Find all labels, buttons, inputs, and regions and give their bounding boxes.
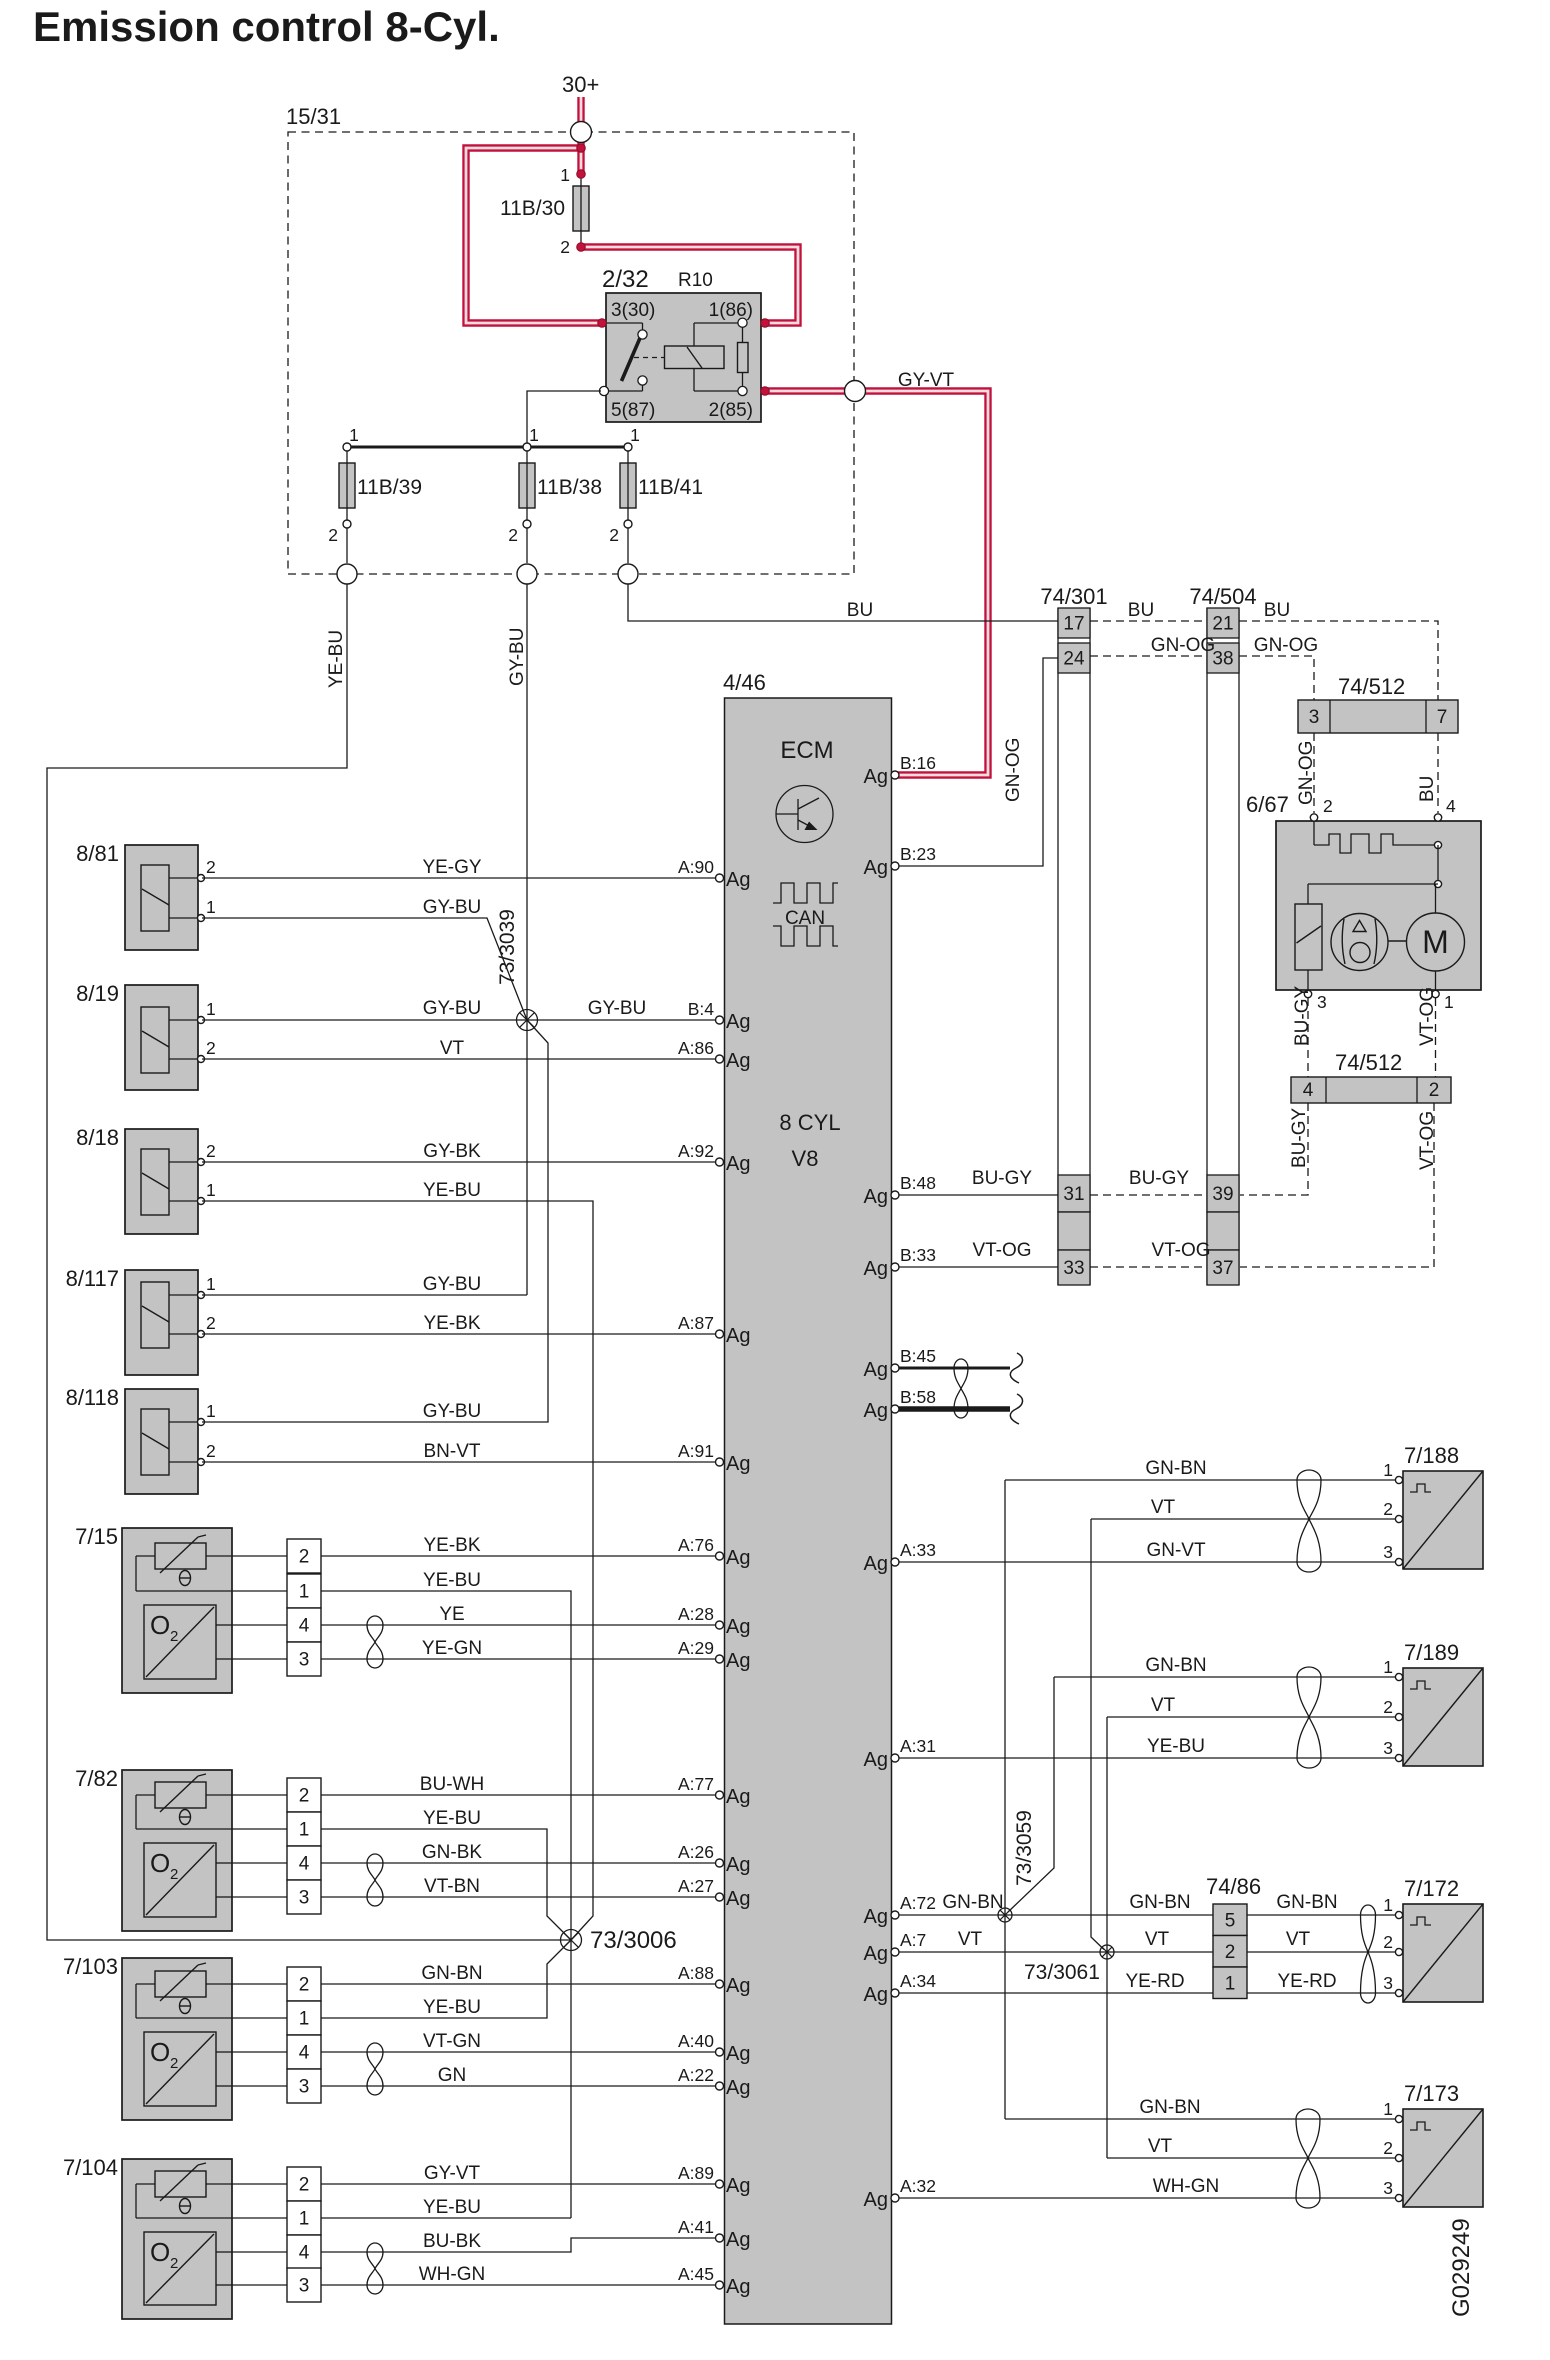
svg-text:2: 2	[206, 1141, 216, 1161]
fuse 11B/41	[609, 425, 703, 563]
wire GN-OG 74/504.38 to 74/512 pin 3	[1239, 656, 1314, 700]
twisted wires 7/172	[1361, 1905, 1376, 1915]
svg-text:2: 2	[206, 857, 216, 877]
junction 73/3059	[998, 1908, 1012, 1922]
svg-text:8 CYL: 8 CYL	[779, 1110, 840, 1135]
twisted pair 7/15	[367, 1616, 383, 1625]
wire VT 8/19.2 to A:86	[202, 1058, 716, 1060]
svg-text:GN-BN: GN-BN	[1276, 1892, 1337, 1913]
svg-text:39: 39	[1212, 1184, 1233, 1205]
svg-text:BU-GY: BU-GY	[1292, 986, 1313, 1047]
connector 74/512 upper	[1298, 674, 1458, 733]
ECM pin B:58	[891, 1405, 899, 1413]
svg-text:11B/38: 11B/38	[537, 476, 602, 499]
svg-text:GN-BN: GN-BN	[421, 1963, 482, 1984]
svg-text:73/3039: 73/3039	[496, 909, 519, 985]
svg-text:5: 5	[1225, 1910, 1236, 1931]
wire GY-BU 8/19.1 to B:4	[202, 1019, 716, 1021]
svg-text:15/31: 15/31	[286, 104, 341, 129]
wire relay 5(87) to fuse bus	[527, 391, 601, 447]
wire GN-BK 7/82.4 to A:26	[321, 1862, 716, 1864]
svg-text:Ag: Ag	[726, 2043, 750, 2065]
svg-text:WH-GN: WH-GN	[419, 2264, 485, 2285]
svg-text:2: 2	[1429, 1080, 1440, 1101]
twisted pair 7/103	[367, 2043, 383, 2052]
ECM pin B:4	[716, 1016, 724, 1024]
svg-text:GY-BU: GY-BU	[423, 1274, 481, 1295]
ECM pin A:91	[716, 1458, 724, 1466]
svg-text:VT-GN: VT-GN	[423, 2031, 481, 2052]
svg-text:Ag: Ag	[864, 1553, 888, 1575]
wire YE-GN 7/15.3 to A:29	[321, 1658, 716, 1660]
svg-text:YE-BK: YE-BK	[423, 1535, 480, 1556]
svg-text:3: 3	[299, 1650, 310, 1671]
wire GN-BN A:72 to 74/86 pin 5	[899, 1914, 1213, 1916]
wire VT to 7/173 pin 2	[1107, 2157, 1399, 2159]
svg-text:A:87: A:87	[678, 1313, 714, 1333]
svg-text:2: 2	[170, 2055, 178, 2072]
svg-text:YE: YE	[439, 1604, 464, 1625]
svg-text:A:76: A:76	[678, 1535, 714, 1555]
svg-text:GN-OG: GN-OG	[1003, 738, 1024, 802]
component 7/172	[1383, 1876, 1483, 2002]
svg-text:GN-BN: GN-BN	[1145, 1655, 1206, 1676]
red wire 30+ feed	[577, 97, 584, 174]
svg-text:7/189: 7/189	[1404, 1640, 1459, 1665]
svg-text:3: 3	[1317, 992, 1327, 1012]
ECM pin B:16	[891, 771, 899, 779]
svg-text:1: 1	[206, 999, 216, 1019]
ECM pin A:33	[891, 1558, 899, 1566]
relay 2/32 R10	[598, 266, 770, 422]
svg-text:2: 2	[1383, 1499, 1393, 1519]
red wire branch to relay pin 3(30)	[466, 148, 604, 323]
svg-text:Ag: Ag	[726, 1453, 750, 1475]
wire BU 74/504.21 to 6/67 pin 4	[1239, 621, 1438, 700]
wire BN-VT 8/118.2 to A:91	[202, 1461, 716, 1463]
break symbol B:58	[1010, 1394, 1022, 1424]
wire YE-BK 7/15.2 to A:76	[321, 1555, 716, 1557]
svg-text:73/3059: 73/3059	[1013, 1810, 1036, 1886]
wire GY-BK 8/18.2 to A:92	[202, 1161, 716, 1163]
svg-text:Emission control 8-Cyl.: Emission control 8-Cyl.	[33, 3, 500, 50]
svg-text:BU: BU	[1264, 600, 1290, 621]
svg-text:Ag: Ag	[864, 1400, 888, 1422]
svg-text:Ag: Ag	[864, 1984, 888, 2006]
svg-text:O: O	[150, 1610, 170, 1640]
twisted pair 7/82	[367, 1854, 383, 1863]
svg-text:1: 1	[299, 2209, 310, 2230]
wire GY-BU 8/117.1 up to junction 73/3039	[202, 1294, 527, 1296]
wire YE-BU 7/103.1 to junction 73/3006	[321, 1940, 571, 2018]
svg-text:Ag: Ag	[726, 869, 750, 891]
svg-text:2: 2	[1225, 1942, 1236, 1963]
svg-text:8/118: 8/118	[66, 1385, 119, 1410]
wire YE-BK 8/117.2 to A:87	[202, 1333, 716, 1335]
svg-text:17: 17	[1063, 614, 1084, 635]
component 7/188	[1383, 1443, 1483, 1569]
wire GN-OG 74/512.3 to 6/67 pin 2	[1313, 733, 1315, 813]
twisted wires 7/188	[1297, 1470, 1321, 1480]
svg-text:74/86: 74/86	[1206, 1874, 1261, 1899]
ECM box 4/46	[723, 670, 892, 2324]
svg-text:Ag: Ag	[864, 1906, 888, 1928]
svg-text:B:58: B:58	[900, 1387, 936, 1407]
break symbol B:45	[1010, 1353, 1022, 1383]
bullet 30+ on border	[571, 122, 592, 143]
wire BU-GY 6/67.3 to 74/512.4	[1307, 998, 1309, 1077]
svg-text:3: 3	[299, 2077, 310, 2098]
svg-text:A:90: A:90	[678, 857, 714, 877]
svg-text:3: 3	[1383, 1542, 1393, 1562]
svg-text:2: 2	[328, 525, 338, 545]
svg-text:Ag: Ag	[864, 766, 888, 788]
wire VT 74/86.2 to 7/172 pin 2	[1247, 1951, 1399, 1953]
wire YE 7/15.4 to A:28	[321, 1624, 716, 1626]
svg-text:GY-BU: GY-BU	[423, 897, 481, 918]
wire VT-BN 7/82.3 to A:27	[321, 1896, 716, 1898]
svg-text:11B/39: 11B/39	[357, 476, 422, 499]
wire YE-BU from 11B/39 to junction 73/3006	[47, 585, 571, 1941]
svg-text:1: 1	[529, 425, 539, 445]
wire BU 74/301.17 to 74/504.21	[1090, 620, 1207, 622]
svg-text:7/172: 7/172	[1404, 1876, 1459, 1901]
red wire relay 2(85) GY-VT to ECM B:16	[763, 391, 988, 775]
svg-text:74/512: 74/512	[1338, 674, 1405, 699]
fuse 11B/39	[328, 425, 422, 563]
svg-text:Ag: Ag	[864, 1186, 888, 1208]
svg-text:YE-GY: YE-GY	[422, 857, 481, 878]
ECM pin A:72	[891, 1911, 899, 1919]
svg-text:B:48: B:48	[900, 1173, 936, 1193]
svg-text:Ag: Ag	[726, 2229, 750, 2251]
svg-text:38: 38	[1212, 649, 1233, 670]
svg-text:VT: VT	[1286, 1929, 1311, 1950]
svg-text:2: 2	[560, 237, 570, 257]
svg-text:A:89: A:89	[678, 2163, 714, 2183]
wire GN-BN 74/86.5 to 7/172 pin 1	[1247, 1914, 1399, 1916]
svg-text:GY-BU: GY-BU	[588, 998, 646, 1019]
svg-text:Ag: Ag	[864, 1258, 888, 1280]
svg-text:74/504: 74/504	[1189, 584, 1256, 609]
svg-text:A:72: A:72	[900, 1893, 936, 1913]
svg-text:7/103: 7/103	[63, 1954, 118, 1979]
svg-text:BU-BK: BU-BK	[423, 2231, 481, 2252]
svg-text:YE-BU: YE-BU	[423, 1808, 481, 1829]
svg-text:VT: VT	[1151, 1497, 1176, 1518]
svg-text:GN-BN: GN-BN	[1145, 1458, 1206, 1479]
svg-text:3(30): 3(30)	[611, 300, 655, 321]
wire YE-BU 7/104.1 to junction 73/3006	[321, 2217, 571, 2219]
svg-text:31: 31	[1063, 1184, 1084, 1205]
svg-text:1: 1	[206, 1401, 216, 1421]
svg-text:1: 1	[1383, 1895, 1393, 1915]
bullet GY-VT on border	[845, 381, 866, 402]
svg-text:VT-OG: VT-OG	[1151, 1240, 1210, 1261]
svg-text:1: 1	[206, 897, 216, 917]
svg-text:A:88: A:88	[678, 1963, 714, 1983]
ground bullet BU	[618, 564, 638, 584]
svg-text:1: 1	[1383, 1460, 1393, 1480]
svg-text:2: 2	[206, 1038, 216, 1058]
svg-text:B:45: B:45	[900, 1346, 936, 1366]
svg-text:GY-VT: GY-VT	[424, 2163, 481, 2184]
twisted wires 7/173	[1296, 2109, 1320, 2119]
svg-text:2: 2	[299, 2175, 310, 2196]
svg-text:VT: VT	[1148, 2136, 1173, 2157]
ECM pin A:27	[716, 1893, 724, 1901]
svg-text:GN-OG: GN-OG	[1296, 741, 1317, 805]
svg-text:11B/41: 11B/41	[638, 476, 703, 499]
svg-text:2: 2	[1383, 1697, 1393, 1717]
wire GN-BN to 7/173 pin 1	[1005, 2118, 1399, 2120]
svg-text:1: 1	[349, 425, 359, 445]
svg-text:YE-RD: YE-RD	[1277, 1971, 1336, 1992]
ECM pin A:29	[716, 1655, 724, 1663]
svg-text:3: 3	[299, 1888, 310, 1909]
svg-text:A:22: A:22	[678, 2065, 714, 2085]
junction 73/3006	[561, 1930, 582, 1951]
wire BU-BK 7/104.4 to A:41	[321, 2238, 716, 2252]
wire YE-BU 7/15.1 to junction 73/3006	[321, 1591, 571, 2218]
svg-text:Ag: Ag	[726, 2175, 750, 2197]
svg-text:Ag: Ag	[864, 2189, 888, 2211]
svg-text:GN-OG: GN-OG	[1254, 635, 1318, 656]
svg-text:YE-BU: YE-BU	[326, 630, 347, 688]
svg-text:BU: BU	[847, 600, 873, 621]
svg-text:A:32: A:32	[900, 2176, 936, 2196]
svg-text:A:29: A:29	[678, 1638, 714, 1658]
ECM pin A:92	[716, 1158, 724, 1166]
wire VT-OG B:33 to 74/301 pin 33	[899, 1266, 1058, 1268]
twisted pair CAN	[954, 1359, 968, 1368]
svg-text:YE-BU: YE-BU	[423, 2197, 481, 2218]
ECM pin A:26	[716, 1859, 724, 1867]
ECM pin A:41	[716, 2234, 724, 2242]
component 7/104 rear O2 sensor	[63, 2155, 321, 2319]
svg-text:A:26: A:26	[678, 1842, 714, 1862]
ECM pin A:34	[891, 1989, 899, 1997]
wire GN-OG 74/301.24 to 74/504.38	[1090, 655, 1207, 657]
svg-text:O: O	[150, 1848, 170, 1878]
twisted pair 7/104	[367, 2243, 383, 2252]
wire YE-BU A:31 to 7/189 pin 3	[899, 1757, 1399, 1759]
component 8/18	[76, 1125, 216, 1234]
svg-text:1: 1	[1383, 2099, 1393, 2119]
svg-text:YE-BU: YE-BU	[423, 1180, 481, 1201]
svg-text:GY-VT: GY-VT	[898, 370, 955, 391]
svg-text:4: 4	[1303, 1080, 1314, 1101]
ECM pin A:88	[716, 1980, 724, 1988]
svg-text:A:92: A:92	[678, 1141, 714, 1161]
wire GY-BU 8/118.1 up to junction 73/3039	[202, 1020, 548, 1422]
wire GN-BN 7/103.2 to A:88	[321, 1983, 716, 1985]
svg-text:M: M	[1422, 924, 1449, 960]
component 7/189	[1383, 1640, 1483, 1766]
wire GN-BN to 7/189 pin 1	[1054, 1676, 1399, 1678]
wire B:58 CAN low	[899, 1406, 1010, 1412]
svg-text:BU: BU	[1417, 776, 1438, 802]
svg-text:4: 4	[299, 2043, 310, 2064]
svg-text:YE-BU: YE-BU	[423, 1570, 481, 1591]
wire GN-BN vertical 7/189 to junction 73/3059	[1008, 1677, 1054, 1912]
svg-text:74/301: 74/301	[1040, 584, 1107, 609]
wire VT vertical 7/189 to 7/173	[1106, 1717, 1108, 2158]
svg-text:7/15: 7/15	[75, 1524, 118, 1549]
fuse bus wire	[347, 446, 628, 449]
svg-text:VT: VT	[1151, 1695, 1176, 1716]
svg-text:A:40: A:40	[678, 2031, 714, 2051]
svg-text:A:77: A:77	[678, 1774, 714, 1794]
component 7/173	[1383, 2081, 1483, 2207]
svg-text:2: 2	[170, 2255, 178, 2272]
svg-text:A:31: A:31	[900, 1736, 936, 1756]
svg-text:24: 24	[1063, 649, 1085, 670]
wire BU-WH 7/82.2 to A:77	[321, 1794, 716, 1796]
svg-text:GY-BU: GY-BU	[507, 628, 528, 686]
svg-text:Ag: Ag	[864, 1359, 888, 1381]
wire GN-BN to 7/188 pin 1	[1005, 1479, 1399, 1481]
component 8/81	[76, 841, 216, 950]
wire VT-OG 74/512.2 to 74/504.37	[1240, 1103, 1434, 1267]
svg-text:2: 2	[1383, 1932, 1393, 1952]
svg-text:8/81: 8/81	[76, 841, 119, 866]
wire VT-GN 7/103.4 to A:40	[321, 2051, 716, 2053]
ECM CAN symbol	[773, 883, 838, 946]
svg-text:3: 3	[1383, 2178, 1393, 2198]
svg-text:4: 4	[299, 2243, 310, 2264]
svg-text:5(87): 5(87)	[611, 400, 655, 421]
svg-text:B:4: B:4	[688, 999, 715, 1019]
svg-text:VT: VT	[440, 1038, 465, 1059]
svg-text:1: 1	[299, 1820, 310, 1841]
junction 73/3039	[517, 1010, 538, 1031]
svg-text:Ag: Ag	[726, 1616, 750, 1638]
ECM pin A:7	[891, 1948, 899, 1956]
svg-text:1(86): 1(86)	[709, 300, 753, 321]
svg-text:1: 1	[1383, 1657, 1393, 1677]
svg-text:Ag: Ag	[726, 1050, 750, 1072]
wire WH-GN A:32 to 7/173 pin 3	[899, 2197, 1399, 2199]
svg-text:8/117: 8/117	[66, 1266, 119, 1291]
wire BU-GY B:48 to 74/301 pin 31	[899, 1194, 1058, 1196]
svg-text:Ag: Ag	[726, 1975, 750, 1997]
wire YE-BU 8/18.1 down to junction 73/3006	[202, 1201, 593, 1940]
svg-text:4: 4	[1446, 796, 1456, 816]
ground bullet YE-BU	[337, 564, 357, 584]
svg-text:2: 2	[1323, 796, 1333, 816]
svg-text:6/67: 6/67	[1246, 792, 1289, 817]
svg-text:3: 3	[1383, 1738, 1393, 1758]
svg-text:BU-WH: BU-WH	[420, 1774, 484, 1795]
svg-text:VT: VT	[1145, 1929, 1170, 1950]
svg-text:2: 2	[1383, 2138, 1393, 2158]
svg-text:7/173: 7/173	[1404, 2081, 1459, 2106]
svg-text:BU: BU	[1128, 600, 1154, 621]
wire WH-GN 7/104.3 to A:45	[321, 2284, 716, 2286]
svg-text:V8: V8	[792, 1146, 819, 1171]
ECM pin A:40	[716, 2048, 724, 2056]
svg-text:R10: R10	[678, 270, 713, 291]
svg-text:Ag: Ag	[726, 2276, 750, 2298]
svg-text:1: 1	[206, 1180, 216, 1200]
svg-text:Ag: Ag	[726, 1153, 750, 1175]
svg-text:O: O	[150, 2237, 170, 2267]
svg-text:YE-BK: YE-BK	[423, 1313, 480, 1334]
svg-text:1: 1	[560, 165, 570, 185]
wire GY-VT 7/104.2 to A:89	[321, 2183, 716, 2185]
svg-text:Ag: Ag	[726, 2077, 750, 2099]
wire B:45 CAN high	[899, 1367, 1010, 1370]
wire YE-BU 7/82.1 to junction 73/3006	[321, 1829, 571, 1940]
svg-text:G029249: G029249	[1448, 2218, 1475, 2317]
svg-text:YE-BU: YE-BU	[1147, 1736, 1205, 1757]
wire GY-BU 8/81.1 to junction 73/3039	[202, 918, 527, 1020]
svg-text:37: 37	[1212, 1258, 1233, 1279]
svg-text:1: 1	[299, 1582, 310, 1603]
ECM pin B:48	[891, 1191, 899, 1199]
fuse 11B/38	[508, 425, 602, 563]
wire YE-RD A:34 to 74/86 pin 1	[899, 1992, 1213, 1994]
svg-text:2: 2	[170, 1866, 178, 1883]
svg-text:BN-VT: BN-VT	[424, 1441, 481, 1462]
ECM pin A:77	[716, 1791, 724, 1799]
svg-text:74/512: 74/512	[1335, 1050, 1402, 1075]
svg-text:7/82: 7/82	[75, 1766, 118, 1791]
connector 74/504	[1189, 584, 1256, 1285]
svg-text:4: 4	[299, 1854, 310, 1875]
svg-text:GN-BN: GN-BN	[942, 1892, 1003, 1913]
svg-text:33: 33	[1063, 1258, 1084, 1279]
svg-text:Ag: Ag	[726, 1325, 750, 1347]
connector 74/301	[1040, 584, 1107, 1285]
svg-text:VT-OG: VT-OG	[1417, 987, 1438, 1046]
svg-text:B:33: B:33	[900, 1245, 936, 1265]
wire VT-OG 74/301.33 to 74/504.37	[1090, 1266, 1207, 1268]
svg-text:GY-BK: GY-BK	[423, 1141, 481, 1162]
component 7/82 front O2 sensor	[75, 1766, 321, 1931]
svg-text:YE-RD: YE-RD	[1125, 1971, 1184, 1992]
svg-text:1: 1	[630, 425, 640, 445]
fuse 11B/30	[500, 144, 589, 257]
svg-text:1: 1	[1444, 992, 1454, 1012]
svg-text:Ag: Ag	[726, 1011, 750, 1033]
svg-text:1: 1	[206, 1274, 216, 1294]
svg-text:8/18: 8/18	[76, 1125, 119, 1150]
svg-text:GY-BU: GY-BU	[423, 998, 481, 1019]
ECM pin A:22	[716, 2082, 724, 2090]
svg-text:YE-BU: YE-BU	[423, 1997, 481, 2018]
svg-text:1: 1	[1225, 1973, 1236, 1994]
wire BU-GY 74/301.31 to 74/504.39	[1090, 1194, 1207, 1196]
svg-text:A:45: A:45	[678, 2264, 714, 2284]
svg-text:BU-GY: BU-GY	[972, 1168, 1033, 1189]
svg-text:VT-BN: VT-BN	[424, 1876, 480, 1897]
ECM pin A:86	[716, 1055, 724, 1063]
junction 73/3061	[1100, 1945, 1114, 1959]
svg-text:GN-OG: GN-OG	[1151, 635, 1215, 656]
svg-text:Ag: Ag	[864, 1943, 888, 1965]
wire BU-GY 74/512.4 to 74/504.39	[1240, 1103, 1308, 1195]
svg-text:WH-GN: WH-GN	[1153, 2176, 1219, 2197]
wire YE-RD 74/86.1 to 7/172 pin 3	[1247, 1992, 1399, 1994]
ECM pin A:89	[716, 2180, 724, 2188]
wire VT to 7/188 pin 2	[1091, 1518, 1399, 1520]
svg-text:2: 2	[508, 525, 518, 545]
svg-text:A:27: A:27	[678, 1876, 714, 1896]
svg-text:2: 2	[299, 1975, 310, 1996]
svg-text:A:41: A:41	[678, 2217, 714, 2237]
